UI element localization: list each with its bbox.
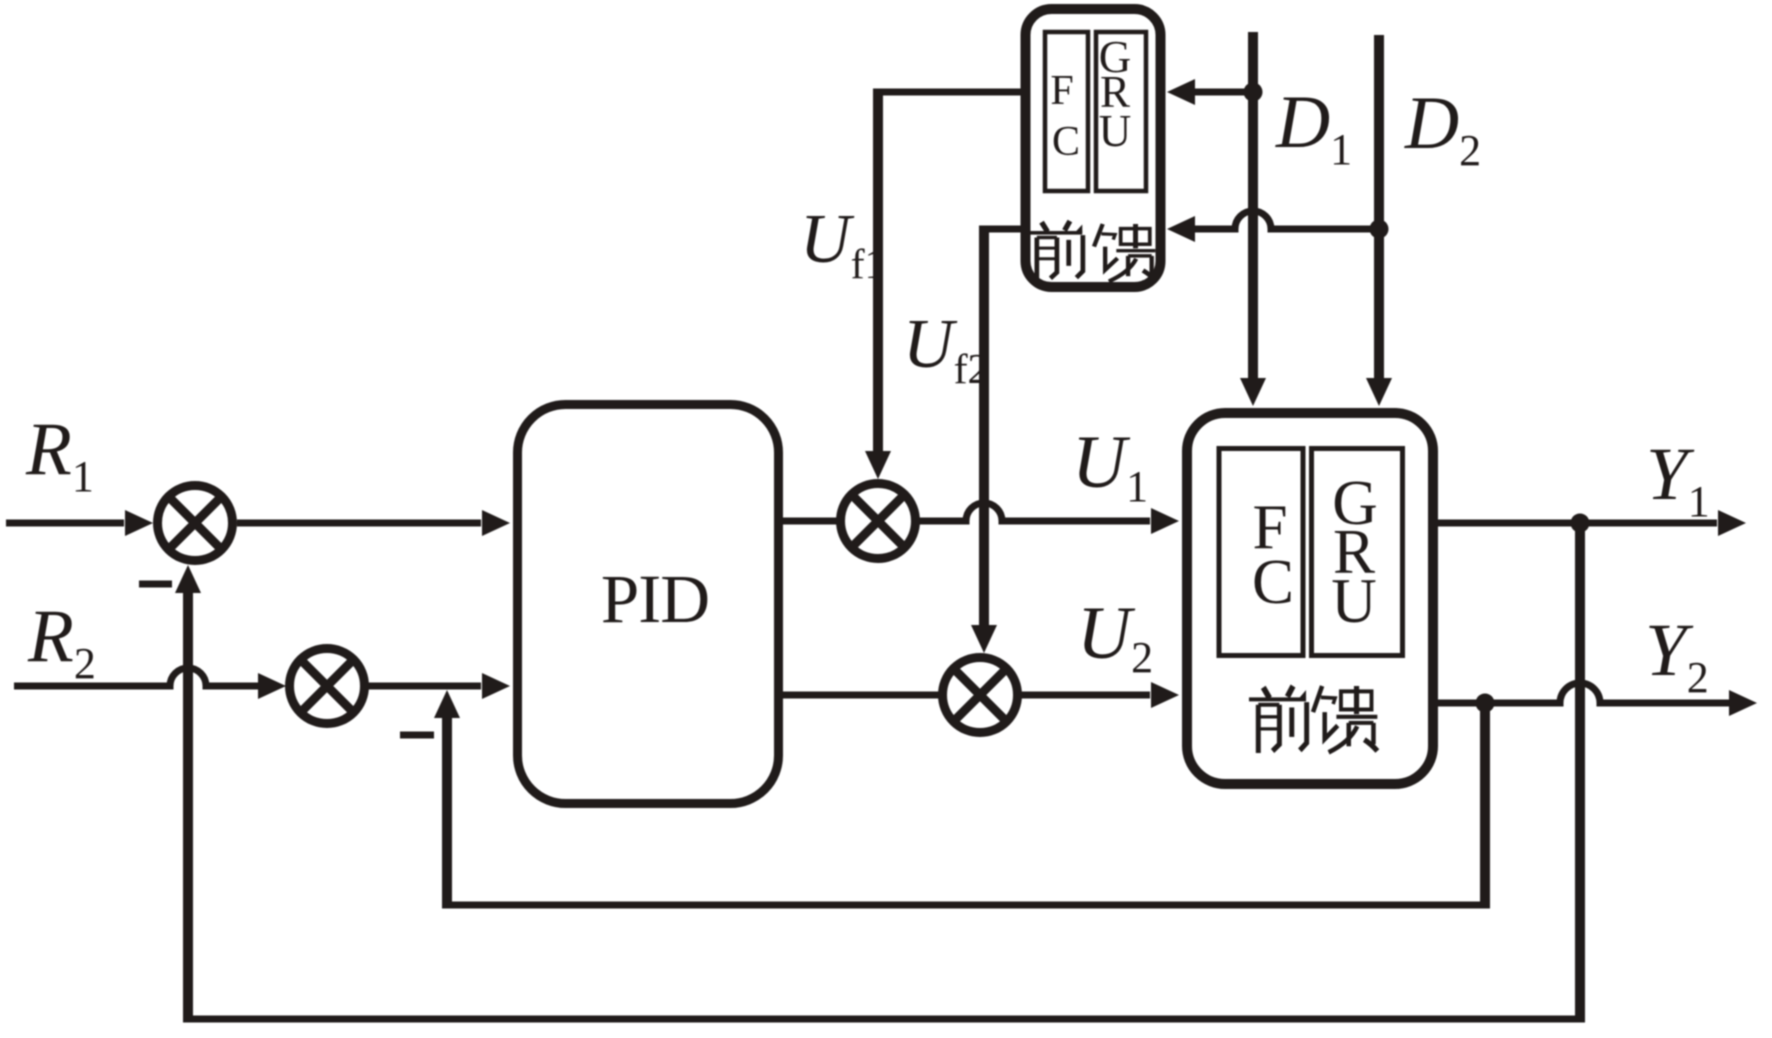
wire S2 to PID bbox=[366, 683, 481, 690]
wire Y2 feedback bottom bbox=[442, 902, 1490, 909]
plant GRU inner box bbox=[1312, 449, 1403, 656]
arrowhead into PID lower bbox=[482, 673, 510, 699]
wire D2 branch into top block, hop over D1 bbox=[1195, 211, 1379, 229]
svg-text:C: C bbox=[1052, 119, 1080, 165]
arrowhead into top block upper bbox=[1167, 79, 1195, 105]
arrowhead U1 into plant bbox=[1151, 508, 1179, 534]
label 前馈 in top box bbox=[1028, 221, 1083, 280]
arrowhead Y2 output bbox=[1729, 690, 1757, 716]
arrowhead D1 into plant bbox=[1240, 378, 1266, 406]
arrowhead feedback into S1 bbox=[175, 565, 201, 593]
minus sign at S1 bbox=[139, 581, 172, 588]
wire Uf2 vertical bbox=[979, 226, 989, 626]
svg-text:F: F bbox=[1050, 68, 1073, 114]
arrowhead R1 into S1 bbox=[125, 510, 153, 536]
wire R2 input, hop over feedback bbox=[14, 668, 258, 686]
arrowhead Y1 output bbox=[1718, 510, 1746, 536]
wire Y1 feedback bottom bbox=[183, 1016, 1585, 1023]
arrowhead feedback into lower path bbox=[434, 690, 460, 718]
svg-text:PID: PID bbox=[601, 561, 709, 637]
wire S3 to plant (U1), hop over Uf2 bbox=[917, 503, 1150, 521]
junction dot D2 bbox=[1370, 220, 1389, 239]
block PID bbox=[518, 405, 779, 804]
wire Uf1 horizontal bbox=[878, 89, 1022, 96]
junction dot Y2 bbox=[1476, 694, 1495, 713]
arrowhead into top block lower bbox=[1167, 216, 1195, 242]
wire PID to S3 bbox=[783, 518, 839, 525]
summing junction S1 bbox=[158, 486, 233, 561]
summing junction S4 bbox=[943, 658, 1018, 733]
top GRU inner box bbox=[1096, 32, 1146, 191]
wire D1 vertical bbox=[1248, 32, 1258, 378]
wire Y1 output bbox=[1438, 520, 1717, 527]
arrowhead U2 into plant bbox=[1151, 682, 1179, 708]
arrowhead Uf1 into S3 bbox=[865, 451, 891, 479]
arrowhead D2 into plant bbox=[1366, 378, 1392, 406]
wire R1 input bbox=[6, 520, 124, 527]
plant FC inner box bbox=[1219, 449, 1303, 656]
junction dot Y1 bbox=[1571, 514, 1590, 533]
wire D1 branch into top block bbox=[1195, 89, 1253, 96]
wire Y1 feedback vertical left bbox=[183, 593, 193, 1023]
top FC inner box bbox=[1045, 32, 1088, 191]
wire Y1 feedback vertical right bbox=[1575, 520, 1585, 1023]
wire D2 vertical bbox=[1374, 35, 1384, 378]
summing junction S2 bbox=[290, 649, 365, 724]
wire Y2 feedback vertical right bbox=[1480, 700, 1490, 909]
svg-text:U: U bbox=[1099, 106, 1132, 156]
wire Y2 output, hop over Y1 feedback bbox=[1438, 683, 1729, 703]
arrowhead into PID upper bbox=[482, 510, 510, 536]
wire PID to S4 bbox=[783, 692, 941, 699]
block top feedforward box bbox=[1026, 9, 1161, 287]
wire S1 to PID bbox=[237, 520, 481, 527]
junction dot D1 bbox=[1244, 83, 1263, 102]
minus sign at lower feedback bbox=[400, 732, 434, 739]
wire Y2 feedback vertical left bbox=[442, 718, 452, 909]
wire Uf2 horizontal bbox=[984, 226, 1022, 233]
label 前馈 in plant box bbox=[1249, 686, 1307, 753]
arrowhead R2 into S2 bbox=[258, 673, 286, 699]
svg-text:U: U bbox=[1331, 566, 1377, 636]
wire S4 to plant (U2) bbox=[1019, 692, 1150, 699]
block plant box bbox=[1187, 413, 1433, 784]
wire Uf1 vertical bbox=[873, 89, 883, 452]
svg-text:C: C bbox=[1252, 547, 1294, 617]
summing junction S3 bbox=[841, 484, 916, 559]
arrowhead Uf2 into S4 bbox=[971, 625, 997, 653]
